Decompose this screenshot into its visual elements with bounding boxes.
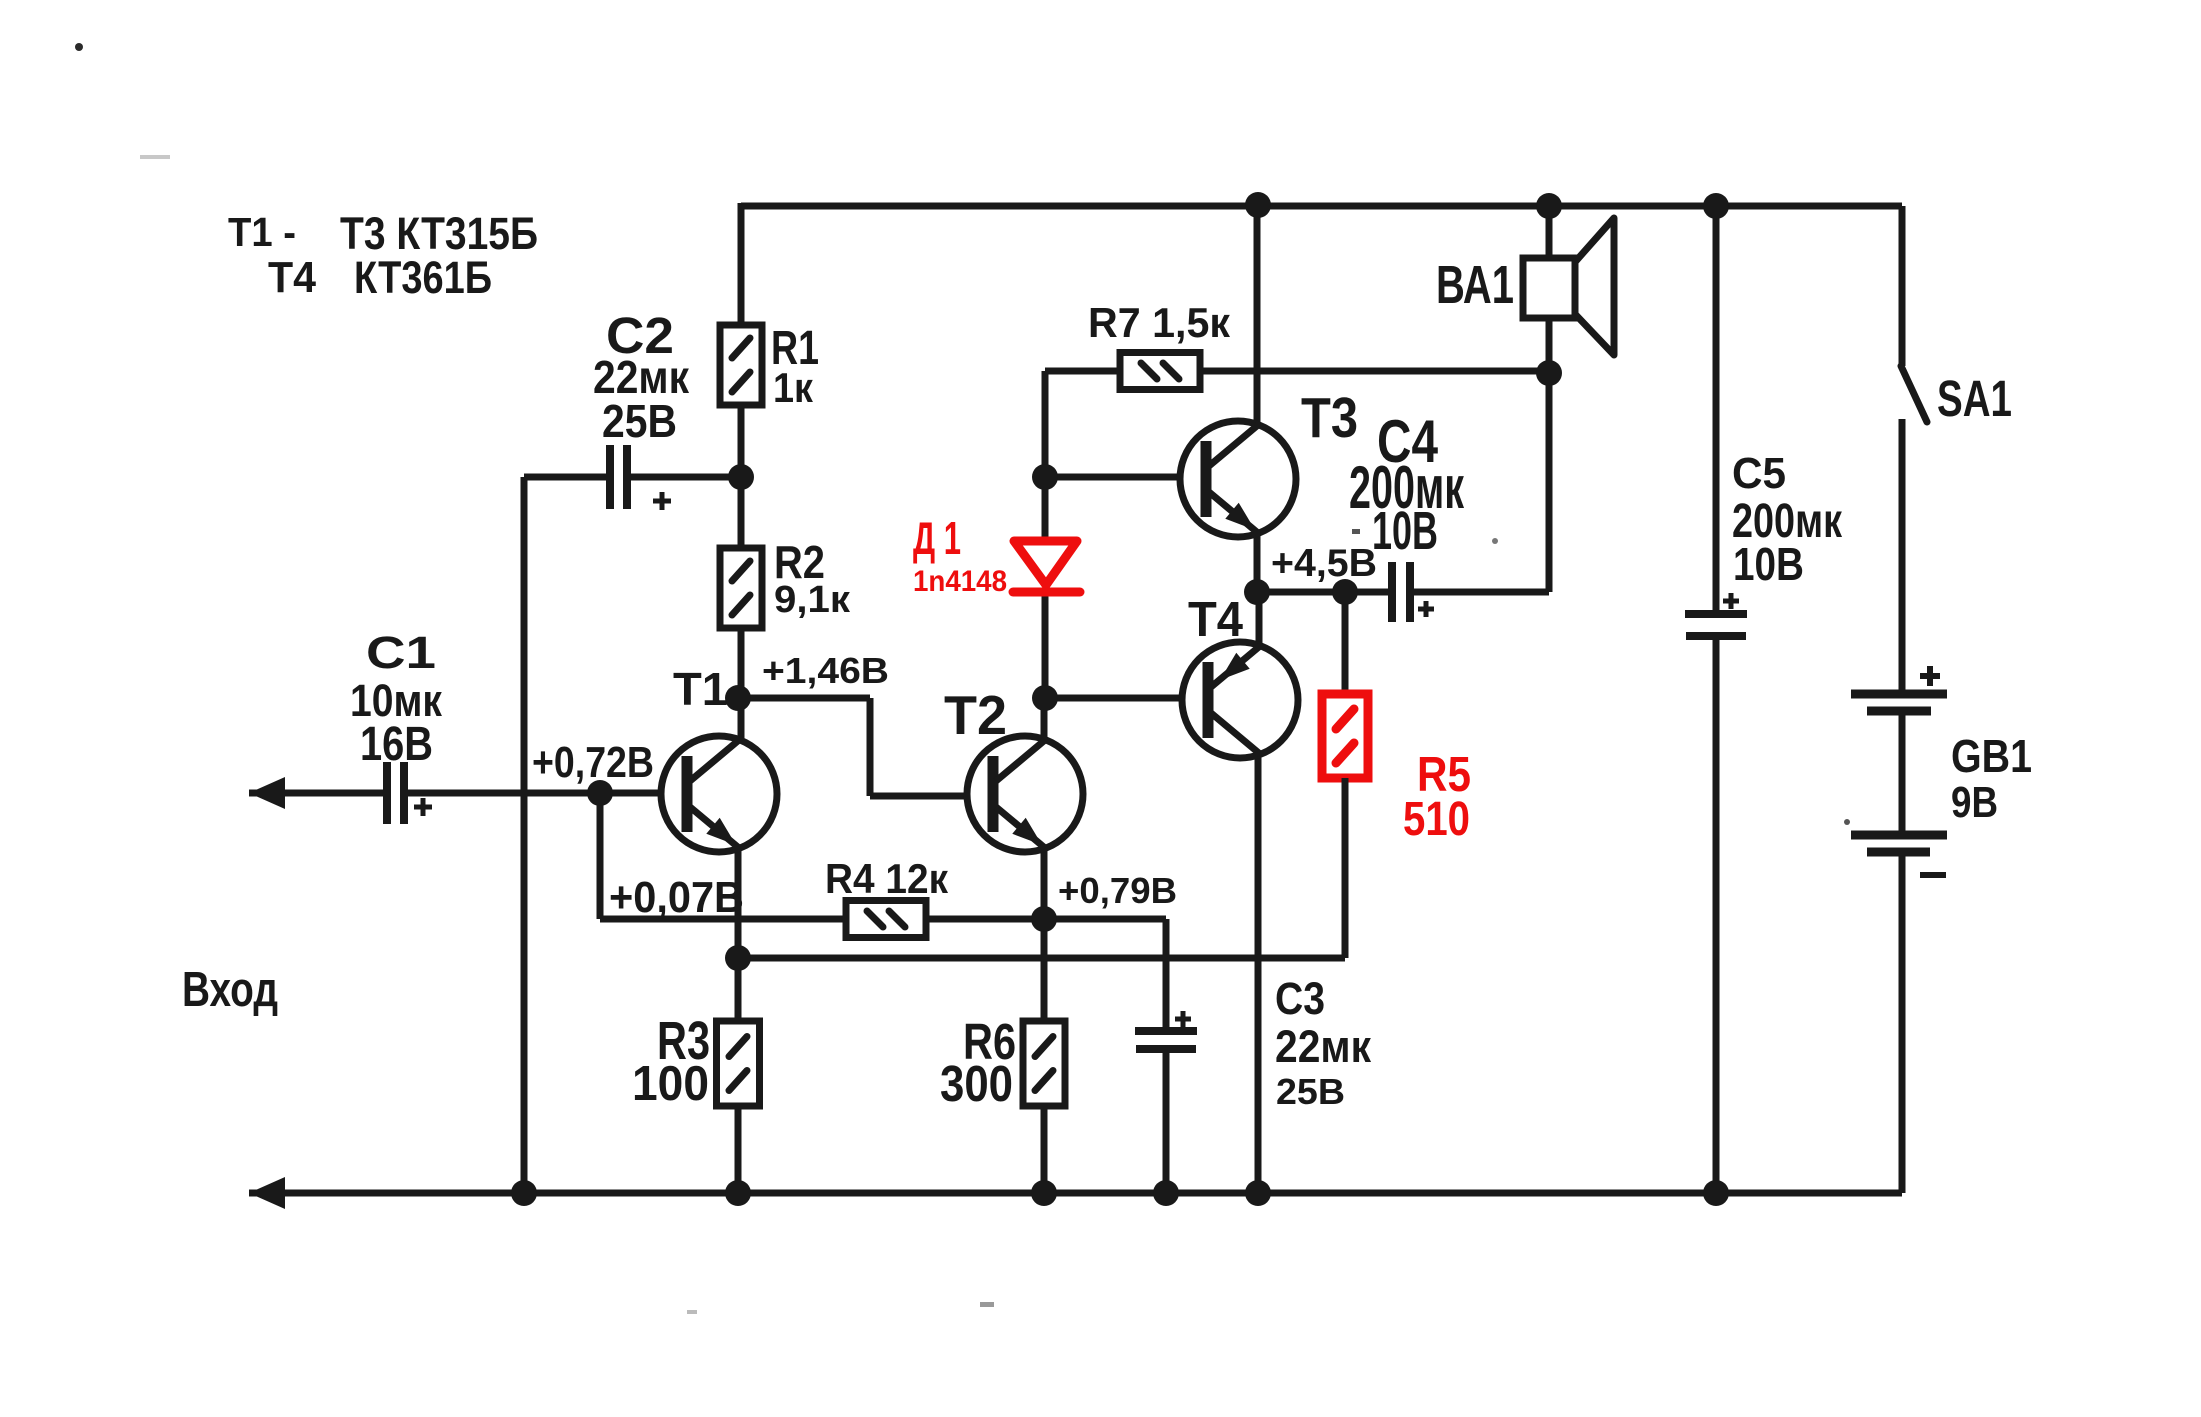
svg-text:9,1к: 9,1к bbox=[774, 579, 851, 621]
svg-text:Т1 -: Т1 - bbox=[228, 209, 296, 255]
svg-text:10В: 10В bbox=[1372, 501, 1438, 561]
svg-text:С1: С1 bbox=[366, 627, 436, 678]
svg-text:16В: 16В bbox=[360, 718, 433, 771]
svg-text:Т2: Т2 bbox=[944, 684, 1007, 746]
svg-text:+0,79В: +0,79В bbox=[1058, 870, 1177, 911]
svg-text:100: 100 bbox=[632, 1057, 709, 1111]
svg-text:+4,5В: +4,5В bbox=[1271, 542, 1377, 585]
svg-text:КТ361Б: КТ361Б bbox=[354, 252, 492, 303]
svg-text:SA1: SA1 bbox=[1937, 370, 2012, 427]
svg-text:R4 12к: R4 12к bbox=[825, 855, 949, 902]
svg-text:Т4: Т4 bbox=[1188, 593, 1243, 647]
svg-text:9В: 9В bbox=[1951, 778, 1998, 827]
svg-text:1n4148: 1n4148 bbox=[913, 565, 1007, 598]
svg-text:22мк: 22мк bbox=[1275, 1021, 1371, 1072]
svg-text:510: 510 bbox=[1403, 793, 1470, 846]
svg-text:10В: 10В bbox=[1733, 538, 1804, 590]
svg-text:25В: 25В bbox=[1276, 1071, 1345, 1112]
svg-text:300: 300 bbox=[940, 1055, 1013, 1112]
svg-text:Т1: Т1 bbox=[673, 663, 728, 715]
svg-text:+0,72В: +0,72В bbox=[532, 738, 654, 787]
svg-text:Д 1: Д 1 bbox=[913, 512, 961, 564]
svg-text:1к: 1к bbox=[773, 364, 814, 411]
svg-text:Т3: Т3 bbox=[1301, 386, 1358, 450]
svg-text:+0,07В: +0,07В bbox=[609, 873, 744, 922]
svg-text:R7 1,5к: R7 1,5к bbox=[1088, 299, 1231, 346]
svg-text:+1,46В: +1,46В bbox=[762, 650, 889, 691]
svg-text:25В: 25В bbox=[602, 395, 677, 447]
svg-text:С5: С5 bbox=[1732, 449, 1786, 498]
svg-text:С3: С3 bbox=[1275, 973, 1325, 1024]
svg-text:ВА1: ВА1 bbox=[1436, 255, 1514, 315]
svg-text:GB1: GB1 bbox=[1951, 730, 2032, 782]
svg-text:Т4: Т4 bbox=[268, 253, 316, 302]
svg-text:Вход: Вход bbox=[182, 963, 278, 1017]
